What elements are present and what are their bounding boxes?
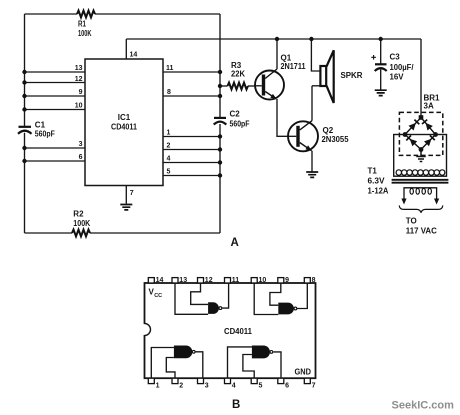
capacitor C1 (18, 121, 55, 139)
speaker SPKR (320, 50, 362, 103)
svg-text:4: 4 (232, 383, 236, 390)
svg-text:14: 14 (130, 52, 138, 59)
svg-text:10: 10 (75, 103, 83, 110)
svg-text:9: 9 (285, 277, 289, 284)
svg-text:Q2: Q2 (323, 126, 334, 135)
pin 6 stub (278, 378, 289, 389)
pin 1 wire (163, 130, 222, 139)
watermark (392, 400, 455, 412)
wire gate U1B to pin8 (297, 283, 308, 309)
pin 9 wire (22, 89, 85, 98)
wire Vcc rail (126, 38, 421, 40)
wire pin2 to gate U1C (166, 358, 175, 379)
svg-text:1: 1 (167, 130, 171, 137)
svg-text:11: 11 (232, 277, 240, 284)
transistor Q2 2N3055 (288, 121, 349, 152)
svg-text:SPKR: SPKR (341, 71, 363, 80)
svg-text:3A: 3A (424, 102, 434, 111)
wire pin10 to gate U1B (254, 283, 278, 315)
op CD4011 pinout body (145, 283, 316, 378)
pin 12 stub (198, 277, 213, 284)
svg-text:5: 5 (259, 383, 263, 390)
capacitor C3 (371, 37, 414, 90)
pin 3 stub (198, 378, 209, 389)
svg-text:560pF: 560pF (230, 120, 250, 129)
svg-text:12: 12 (75, 76, 83, 83)
svg-text:T1: T1 (368, 167, 378, 176)
wire Q2 emitter (311, 151, 313, 172)
svg-text:12: 12 (205, 277, 213, 284)
svg-text:10: 10 (259, 277, 267, 284)
svg-text:CD4011: CD4011 (111, 123, 137, 132)
svg-text:R1: R1 (78, 19, 86, 28)
gate U1D body (252, 346, 273, 359)
pin 7 stub (304, 378, 315, 389)
bridge diamond wires (405, 118, 436, 150)
resistor R3 (228, 61, 249, 89)
svg-text:8: 8 (167, 89, 171, 96)
pin 10 wire (22, 103, 85, 112)
ground C3 (375, 90, 387, 95)
notch (143, 324, 150, 336)
gate U1A body (208, 302, 222, 314)
gate U1C body (174, 346, 195, 359)
svg-text:117 VAC: 117 VAC (406, 227, 437, 236)
pin 8 stub (304, 277, 315, 284)
svg-text:3: 3 (79, 141, 83, 148)
diode D3 (406, 135, 417, 146)
pin 8 wire (163, 89, 222, 98)
wire pin4 to gate U1D (228, 347, 252, 378)
svg-text:2N1711: 2N1711 (281, 62, 306, 71)
node Vcc label (149, 287, 163, 299)
svg-text:A: A (231, 237, 239, 249)
wire top rail right segment (95, 13, 220, 15)
wire gate U1C to pin3 (195, 352, 203, 378)
svg-text:3: 3 (205, 383, 209, 390)
wire pin1 to gate U1C (151, 348, 174, 379)
pin 4 stub (225, 378, 236, 389)
wire Q2 collector to speaker (311, 86, 313, 121)
svg-text:16V: 16V (390, 73, 405, 82)
svg-text:CC: CC (154, 293, 162, 299)
ground IC1 pin7 (120, 205, 132, 210)
pin 1 stub (148, 378, 159, 389)
svg-text:IC1: IC1 (118, 113, 131, 122)
wire pin13 to gate U1A (175, 283, 208, 314)
pin 4 wire (163, 156, 222, 165)
node bridge top (419, 115, 424, 120)
wire far right rail to bridge (420, 39, 422, 118)
svg-text:11: 11 (166, 65, 174, 72)
transformer T1 core (392, 180, 449, 183)
wire Q1 collector (275, 37, 279, 69)
node B section label (232, 399, 240, 411)
diode D2 (422, 120, 433, 131)
wire gate U1D to pin6 (273, 352, 281, 378)
wire top rail left segment (25, 13, 78, 15)
wire speaker top (309, 37, 320, 71)
wire Q1 emitter to Q2 base (277, 99, 288, 136)
svg-text:1-12A: 1-12A (368, 186, 389, 195)
svg-text:R2: R2 (73, 209, 84, 218)
resistor R1 (77, 11, 95, 38)
pin 14 stub (148, 277, 163, 284)
svg-text:100K: 100K (73, 219, 90, 228)
transformer T1 primary (401, 188, 439, 205)
wire right rail (219, 14, 221, 233)
svg-text:7: 7 (312, 383, 316, 390)
pin 7 wire (126, 186, 134, 204)
pin 2 stub (172, 378, 183, 389)
svg-text:1: 1 (156, 383, 160, 390)
transformer T1 secondary coil (396, 170, 445, 175)
ground bridge (416, 150, 425, 162)
pin 5 stub (251, 378, 262, 389)
gate U1B body (278, 303, 297, 315)
svg-text:8: 8 (312, 277, 316, 284)
wire R3 to Q1 base (248, 85, 255, 87)
op IC1 CD4011 body (85, 59, 163, 186)
svg-text:4: 4 (167, 156, 171, 163)
wire bottom rail right segment (90, 232, 220, 234)
svg-text:2N3055: 2N3055 (322, 135, 350, 144)
pin 5 wire (163, 169, 222, 178)
svg-text:14: 14 (156, 277, 164, 284)
node A section label (231, 237, 239, 249)
svg-text:13: 13 (179, 277, 187, 284)
node TO 117 VAC label (406, 217, 437, 236)
svg-text:9: 9 (79, 89, 83, 96)
pin 11 stub (225, 277, 240, 284)
node bridge right (433, 132, 438, 137)
svg-text:100µF/: 100µF/ (390, 63, 415, 72)
svg-text:2: 2 (179, 383, 183, 390)
resistor R2 (72, 209, 90, 236)
pin 13 wire (22, 65, 85, 74)
wire bottom rail left segment (25, 232, 73, 234)
transformer T1 secondary frame (394, 135, 447, 177)
pin 12 wire (22, 76, 85, 85)
pin 6 wire (22, 154, 85, 163)
node R3 junction (218, 84, 228, 88)
pin 10 stub (251, 277, 266, 284)
bridge BR1 dashed box (399, 112, 442, 155)
pin 11 wire (163, 65, 222, 74)
node bridge bottom (419, 147, 424, 152)
svg-text:5: 5 (167, 169, 171, 176)
node bridge left (403, 132, 408, 137)
pin 3 wire (22, 141, 85, 150)
wire gate U1A to pin11 (222, 283, 229, 308)
svg-text:560pF: 560pF (35, 129, 55, 138)
diode D4 (424, 135, 435, 146)
svg-text:22K: 22K (231, 70, 245, 79)
brace 117VAC (399, 205, 443, 212)
transistor Q1 2N1711 (255, 53, 306, 99)
wire speaker bottom stub (312, 85, 320, 87)
wire left rail (24, 14, 26, 233)
svg-text:7: 7 (130, 190, 134, 197)
svg-text:6: 6 (79, 154, 83, 161)
svg-text:100K: 100K (78, 29, 92, 38)
svg-text:GND: GND (295, 367, 312, 376)
bridge BR1 labels (424, 94, 441, 111)
wire pin9 to gate U1B (270, 283, 281, 305)
transformer T1 labels (368, 167, 389, 196)
svg-text:6.3V: 6.3V (368, 176, 386, 185)
svg-text:6: 6 (285, 383, 289, 390)
svg-text:CD4011: CD4011 (224, 327, 253, 336)
pin 14 wire (126, 39, 137, 59)
svg-text:C1: C1 (35, 121, 46, 130)
svg-text:13: 13 (75, 65, 83, 72)
svg-text:B: B (232, 399, 240, 411)
svg-text:C3: C3 (390, 53, 401, 62)
svg-text:SeekIC.com: SeekIC.com (392, 400, 455, 412)
svg-text:2: 2 (167, 143, 171, 150)
capacitor C2 (214, 110, 250, 129)
wire pin5 to gate U1D (243, 355, 254, 379)
diode D1 (409, 120, 420, 131)
pin 9 stub (278, 277, 289, 284)
wire pin12 to gate U1A (191, 283, 208, 304)
svg-text:TO: TO (406, 217, 417, 226)
ground Q2 emitter (306, 172, 318, 177)
pin 13 stub (172, 277, 187, 284)
svg-text:C2: C2 (230, 110, 241, 119)
pin 2 wire (163, 143, 222, 152)
